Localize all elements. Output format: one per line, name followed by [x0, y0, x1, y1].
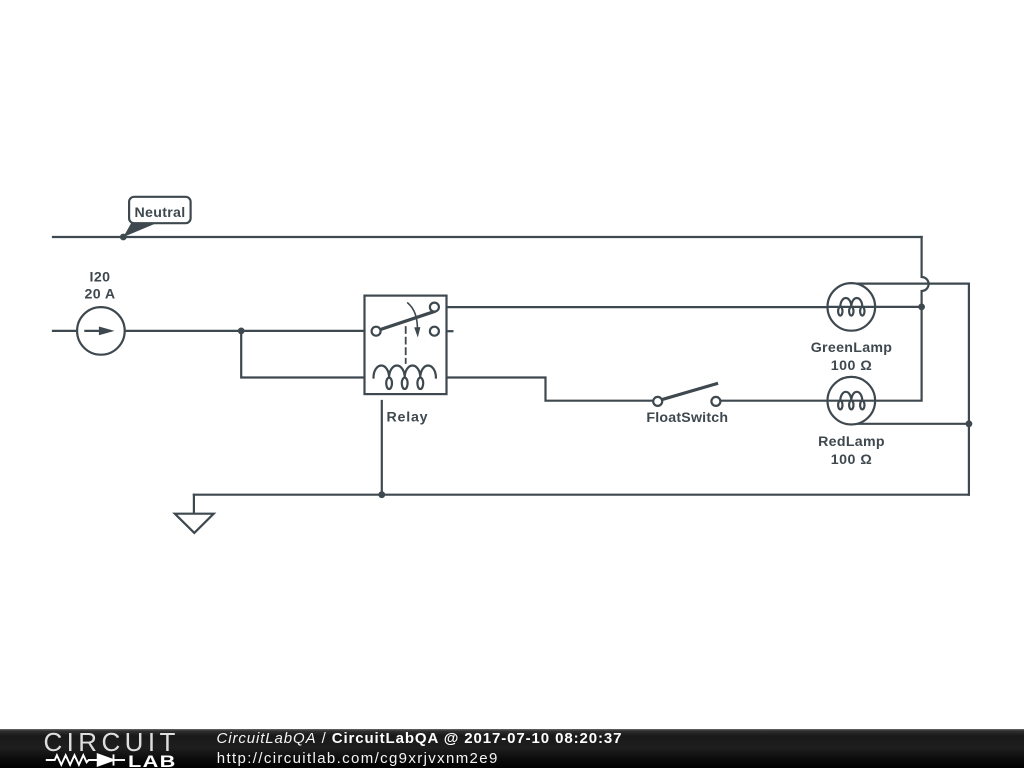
relay dashed link [405, 327, 407, 363]
node: relay bottom tee dot [378, 491, 385, 498]
wire: relay coil right to FloatSwitch [437, 378, 653, 401]
wire: right rail down [968, 284, 970, 495]
relay pole contact [372, 327, 381, 336]
node: I20 output tee dot [238, 328, 245, 335]
wire: FloatSwitch to RedLamp [721, 400, 828, 402]
footer credit line 2 [217, 750, 499, 767]
ground [175, 495, 214, 533]
label I20 value [84, 270, 115, 303]
wire: neutral drop with hop over green-top wire [922, 237, 929, 307]
label GreenLamp value [811, 340, 893, 374]
wire: relay bottom to ground rail [381, 401, 383, 495]
relay NO contact [430, 303, 439, 312]
wire: bottom ground rail [194, 494, 969, 496]
relay blade [381, 312, 434, 330]
svg-text:GreenLamp: GreenLamp [811, 340, 893, 356]
node: lamp junction dot [918, 304, 925, 311]
relay U1 [365, 296, 447, 395]
logo LAB wordmark [128, 752, 177, 768]
node: neutral tap dot [120, 234, 127, 241]
wire: left stub into I20 [53, 330, 77, 332]
wire: neutral top rail [53, 236, 922, 238]
flag Neutral [123, 197, 190, 237]
wire: GreenLamp top tangent to right rail [851, 283, 969, 285]
svg-text:100 Ω: 100 Ω [831, 452, 873, 468]
wire: tee down to relay coil row [241, 331, 373, 378]
svg-text:I20: I20 [90, 270, 111, 286]
wire: I20 output to relay pole [125, 330, 371, 332]
label RedLamp value [818, 434, 885, 468]
current source I20 [77, 307, 125, 355]
footer credit line 1 [217, 730, 623, 747]
svg-text:RedLamp: RedLamp [818, 434, 885, 450]
logo resistor-diode motif [44, 751, 174, 768]
svg-text:100 Ω: 100 Ω [831, 358, 873, 374]
relay actuate arrow [408, 303, 418, 331]
node: red lamp bottom tee dot [966, 420, 973, 427]
relay coil L [374, 366, 436, 378]
logo CIRCUIT wordmark [44, 727, 180, 758]
svg-text:20 A: 20 A [84, 287, 115, 303]
lamp GreenLamp [828, 283, 876, 331]
lamp RedLamp [828, 377, 876, 425]
wire: RedLamp bottom tangent to right rail [851, 423, 969, 425]
svg-text:Neutral: Neutral [135, 205, 186, 221]
svg-text:FloatSwitch: FloatSwitch [646, 410, 728, 426]
wire: GreenLamp right to neutral junction [875, 306, 922, 308]
wire: relay NO contact to GreenLamp [439, 306, 828, 308]
wire: RedLamp right up to lamp junction [875, 307, 922, 401]
svg-text:Relay: Relay [387, 410, 429, 426]
wire: relay NC stub [439, 330, 452, 332]
footer bar [0, 729, 1024, 768]
switch FloatSwitch [653, 384, 720, 406]
relay NC contact [430, 327, 439, 336]
